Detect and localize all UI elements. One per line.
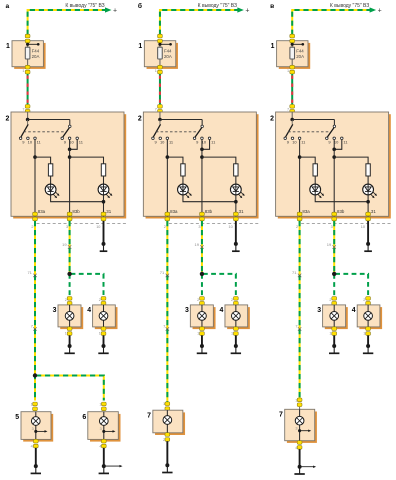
svg-text:в: в bbox=[270, 3, 274, 10]
wire: junction to fog lamp 3 (green) bbox=[333, 274, 335, 297]
wire: fuse to switch unit (green-red) bbox=[291, 74, 293, 104]
junction node to both fog lamps bbox=[67, 272, 71, 276]
lamp bulb in unit 3 bbox=[65, 305, 74, 327]
wire: contact 11 of S1 to output 83a bbox=[34, 140, 36, 217]
node on 83b feed bbox=[68, 155, 72, 159]
node: switch common bbox=[290, 118, 294, 122]
arrowhead to terminal "75" with + bbox=[370, 7, 382, 14]
inline connector 19 on 83b wire bbox=[327, 242, 336, 249]
wire: junction to fog lamp 4 (green) bbox=[71, 274, 104, 297]
switch S2 contact 9 bbox=[193, 137, 199, 145]
svg-text:7: 7 bbox=[287, 107, 289, 111]
inline connector 7 on 83a wire bbox=[163, 323, 169, 330]
inline connector 7 on 83a wire bbox=[31, 323, 37, 330]
svg-text:7: 7 bbox=[147, 412, 151, 419]
branch arrow at lamp 6 ground bbox=[104, 465, 123, 468]
junction node to both fog lamps bbox=[200, 272, 204, 276]
svg-text:F44: F44 bbox=[296, 48, 304, 53]
node at terminal 31 rail bbox=[366, 200, 370, 204]
ground symbol lamp 3 bbox=[329, 347, 339, 354]
wire: link contacts 10-11 of S2 bbox=[334, 140, 342, 150]
ground node for switch unit bbox=[366, 242, 370, 246]
wire: supply from terminal "75" to fuse (yellow-green) bbox=[160, 10, 238, 35]
svg-text:83b: 83b bbox=[337, 209, 345, 214]
svg-text:20A: 20A bbox=[164, 54, 172, 59]
wire: fog lamp 3 to ground bbox=[333, 335, 335, 346]
connector at fog lamp 4, pin 1 bbox=[99, 297, 106, 306]
svg-text:1: 1 bbox=[22, 69, 24, 73]
switch unit box 2 bbox=[270, 112, 391, 219]
wire: common bus to second switch bbox=[28, 120, 70, 126]
switch S2 contact 11 bbox=[76, 137, 84, 145]
svg-text:83a: 83a bbox=[302, 209, 310, 214]
svg-text:19: 19 bbox=[327, 242, 332, 247]
switch S2 contact 10 bbox=[333, 137, 339, 145]
ground node for switch unit bbox=[234, 242, 238, 246]
svg-text:6: 6 bbox=[82, 414, 86, 421]
wire: rear lamp 7 to ground bbox=[299, 449, 301, 467]
wire: supply from terminal "75" to fuse (yellow-green) bbox=[292, 10, 370, 35]
ground symbol lamp 3 bbox=[64, 347, 74, 354]
svg-text:1: 1 bbox=[197, 332, 199, 336]
wire: fuse to switch unit (green-red) bbox=[159, 74, 161, 104]
switch S1 contact 9 bbox=[152, 137, 158, 145]
node at terminal 31 rail bbox=[102, 200, 106, 204]
switch S2 contact 10 bbox=[68, 137, 74, 145]
connector at output 83b, pin 3 bbox=[66, 212, 72, 229]
svg-text:4: 4 bbox=[220, 307, 224, 314]
wire: contact 11 of S1 to output 83a bbox=[299, 140, 301, 217]
svg-text:1: 1 bbox=[99, 402, 101, 406]
fuse F44 20A bbox=[158, 43, 172, 67]
wire: S2 link to output 83b bbox=[201, 149, 203, 216]
connector at rear lamp 6, pin 1 bbox=[99, 402, 106, 411]
svg-text:К выводу "75" ВЗ: К выводу "75" ВЗ bbox=[198, 3, 237, 9]
connector at rear lamp 7, pin 1 bbox=[295, 398, 302, 409]
inline connector 19 on 83b wire bbox=[62, 242, 71, 249]
svg-text:1: 1 bbox=[287, 69, 289, 73]
wire: junction to rear lamp 6 (yellow-green) bbox=[36, 376, 104, 401]
lamp bulb in unit 4 bbox=[232, 305, 241, 327]
wire: fuse to switch unit (green-red) bbox=[27, 74, 29, 104]
connector at fog lamp 3, pin 1 bbox=[197, 297, 204, 306]
connector at output 31, pin 10 bbox=[229, 212, 239, 229]
connector at fog lamp 3 bottom, pin 2 bbox=[329, 327, 336, 336]
wire: input stub to common node bbox=[27, 112, 29, 120]
ground node lamp 5 bbox=[34, 464, 38, 468]
LED HL2 (switch illumination) bbox=[230, 184, 244, 198]
rear lamp unit 7 bbox=[147, 410, 185, 435]
switch S2 contact 11 bbox=[341, 137, 349, 145]
svg-text:71: 71 bbox=[160, 270, 165, 275]
wire: branch to illumination resistor R2 bbox=[202, 157, 236, 184]
svg-text:+: + bbox=[245, 7, 249, 14]
svg-text:2: 2 bbox=[31, 225, 33, 229]
svg-text:2: 2 bbox=[65, 298, 67, 302]
wire: branch to illumination resistor R1 bbox=[35, 157, 51, 184]
switch S2 pivot bbox=[333, 125, 336, 128]
svg-text:83a: 83a bbox=[170, 209, 178, 214]
node on 83b feed bbox=[332, 155, 336, 159]
svg-text:4: 4 bbox=[295, 446, 297, 450]
lamp bulb in unit 4 bbox=[99, 305, 108, 327]
ground symbol lamp 4 bbox=[231, 347, 241, 354]
connector at fog lamp 4 bottom, pin 2 bbox=[99, 327, 106, 336]
wire: rear lamp 7 to ground bbox=[166, 441, 168, 465]
wire: S2 link to output 83b bbox=[333, 149, 335, 216]
wire: terminal 31 to ground (black) bbox=[367, 221, 369, 244]
svg-text:5: 5 bbox=[15, 414, 19, 421]
wire: S2 link to output 83b bbox=[69, 149, 71, 216]
wire: LED return rail to terminal 31 bbox=[51, 195, 104, 217]
arrowhead to terminal "75" with + bbox=[105, 7, 117, 14]
svg-text:2: 2 bbox=[197, 298, 199, 302]
connector at fuse box output, pin 1 bbox=[22, 65, 30, 74]
connector at fog lamp 4, pin 1 bbox=[363, 297, 370, 306]
connector at rear lamp 7 bottom, pin 2 bbox=[163, 433, 170, 442]
wire: fog lamp 3 to ground bbox=[201, 335, 203, 346]
ground node for switch unit bbox=[102, 242, 106, 246]
wire: contact 11 of S1 to output 83a bbox=[166, 140, 168, 217]
svg-text:10: 10 bbox=[28, 140, 33, 145]
node: switch common bbox=[158, 118, 162, 122]
junction node to both fog lamps bbox=[332, 272, 336, 276]
connector at rear lamp 7, pin 1 bbox=[163, 402, 170, 411]
ground node lamp 4 bbox=[234, 344, 238, 348]
lamp bulb in unit 7 bbox=[295, 409, 311, 440]
connector at output 31, pin 10 bbox=[361, 212, 371, 229]
connector at output 83b, pin 3 bbox=[331, 212, 337, 229]
svg-text:1: 1 bbox=[295, 398, 297, 402]
resistor R2 bbox=[234, 164, 238, 176]
switch unit box 2 bbox=[138, 112, 259, 219]
connector at switch unit input, pin 7 bbox=[287, 105, 295, 114]
connector at fog lamp 4 bottom, pin 2 bbox=[231, 327, 238, 336]
lamp bulb in unit 7 bbox=[163, 410, 172, 433]
node on 83a feed bbox=[33, 155, 37, 159]
wire: input stub to common node bbox=[291, 112, 293, 120]
wire: rear lamp 6 to ground bbox=[103, 448, 105, 466]
fog lamp unit 3 bbox=[185, 305, 216, 329]
connector at output 83a, pin 2 bbox=[31, 212, 37, 229]
node on S2 link bbox=[332, 148, 336, 152]
rear lamp unit 6 bbox=[82, 412, 120, 442]
wire: LED return rail to terminal 31 bbox=[315, 195, 368, 217]
svg-text:4: 4 bbox=[31, 445, 33, 449]
ground node lamp 7 with branch bbox=[298, 465, 302, 469]
switch S1 contact 10 bbox=[27, 137, 33, 145]
ground node lamp 4 bbox=[366, 344, 370, 348]
LED HL2 (switch illumination) bbox=[363, 184, 377, 198]
wire: terminal 31 to ground (black) bbox=[103, 221, 105, 244]
switch S1 contact 11 bbox=[166, 137, 174, 145]
switch S1 lever bbox=[153, 120, 160, 137]
svg-text:3: 3 bbox=[295, 426, 297, 430]
LED HL1 (switch illumination) bbox=[178, 184, 192, 198]
svg-text:1: 1 bbox=[6, 43, 10, 50]
resistor R1 bbox=[48, 164, 52, 176]
ground symbol (switch unit) bbox=[364, 245, 372, 252]
wire: link contacts 10-11 of S2 bbox=[202, 140, 210, 150]
connector at rear lamp 5 bottom, pin 4 bbox=[31, 439, 39, 448]
switch S1 contact 11 bbox=[298, 137, 306, 145]
svg-text:2: 2 bbox=[138, 116, 142, 123]
node and branch arrow in unit 6 bbox=[102, 430, 105, 433]
fog lamp unit 3 bbox=[53, 305, 84, 329]
LED HL1 (switch illumination) bbox=[45, 184, 59, 198]
svg-text:4: 4 bbox=[87, 307, 91, 314]
mechanical link (dashed) bbox=[288, 131, 330, 133]
switch S2 lever bbox=[63, 128, 70, 138]
svg-text:К выводу "75" ВЗ: К выводу "75" ВЗ bbox=[330, 3, 369, 9]
ground symbol lamp 3 bbox=[197, 347, 207, 354]
lamp bulb in unit 4 bbox=[364, 305, 373, 327]
connector at fog lamp 3 bottom, pin 2 bbox=[197, 327, 204, 336]
wire: junction to fog lamp 4 (green) bbox=[203, 274, 236, 297]
svg-text:2: 2 bbox=[231, 298, 233, 302]
wire: supply from terminal "75" to fuse (yellow-green) bbox=[28, 10, 106, 35]
ground node lamp 7 bbox=[165, 463, 169, 467]
svg-text:19: 19 bbox=[62, 242, 67, 247]
svg-text:+: + bbox=[378, 7, 382, 14]
resistor R2 bbox=[101, 164, 105, 176]
svg-text:б: б bbox=[138, 2, 142, 10]
connector at rear lamp 7 bottom, pin 4 bbox=[295, 441, 302, 450]
wire: junction to fog lamp 4 (green) bbox=[335, 274, 368, 297]
svg-text:71: 71 bbox=[292, 270, 297, 275]
svg-text:1: 1 bbox=[155, 69, 157, 73]
svg-text:20A: 20A bbox=[32, 54, 40, 59]
ground node lamp 3 bbox=[332, 344, 336, 348]
switch S2 lever bbox=[195, 128, 202, 138]
ground node lamp 6 with branch bbox=[102, 464, 106, 468]
wire: branch to illumination resistor R1 bbox=[300, 157, 316, 184]
ground symbol lamp 6 bbox=[99, 467, 109, 474]
LED HL1 (switch illumination) bbox=[310, 184, 324, 198]
svg-text:3: 3 bbox=[100, 427, 102, 431]
connector at switch unit input, pin 7 bbox=[22, 105, 30, 114]
connector at fuse box output, pin 1 bbox=[287, 65, 295, 74]
svg-text:19: 19 bbox=[194, 242, 199, 247]
fog lamp unit 3 bbox=[317, 305, 348, 329]
ground symbol lamp 4 bbox=[363, 347, 373, 354]
connector at output 83b, pin 3 bbox=[198, 212, 204, 229]
connector at output 83a, pin 2 bbox=[296, 212, 302, 229]
inline connector 71 on 83a wire bbox=[292, 270, 301, 277]
svg-text:71: 71 bbox=[27, 270, 32, 275]
connector at fog lamp 3, pin 1 bbox=[65, 297, 72, 306]
wire: input stub to common node bbox=[159, 112, 161, 120]
wire: rear lamp 5 to ground bbox=[35, 448, 37, 466]
wire: 83a to rear fog lamps (yellow-green) bbox=[34, 221, 36, 401]
wire: fog lamp 4 to ground bbox=[103, 335, 105, 346]
node on 83a feed bbox=[298, 155, 302, 159]
wire: fog lamp 3 to ground bbox=[69, 335, 71, 346]
fuse F44 20A bbox=[25, 43, 39, 67]
svg-text:3: 3 bbox=[185, 307, 189, 314]
ground symbol lamp 5 bbox=[31, 467, 41, 474]
lamp bulb in unit 6 bbox=[99, 412, 115, 440]
lamp bulb in unit 5 bbox=[31, 412, 47, 440]
wire: fog lamp 4 to ground bbox=[367, 335, 369, 346]
connector at fog lamp 4, pin 1 bbox=[231, 297, 238, 306]
ground node lamp 3 bbox=[68, 344, 72, 348]
connector at fuse box input bbox=[290, 34, 295, 43]
wire: 83b to fog lamp junction (yellow-green) bbox=[333, 221, 335, 274]
svg-text:31: 31 bbox=[106, 209, 111, 214]
connector at fuse box output, pin 1 bbox=[155, 65, 163, 74]
ground symbol lamp 4 bbox=[98, 347, 108, 354]
fuse/relay box 1 bbox=[271, 41, 311, 69]
svg-text:7: 7 bbox=[22, 107, 24, 111]
ground symbol (switch unit) bbox=[100, 245, 108, 252]
svg-text:7: 7 bbox=[279, 412, 283, 419]
lamp bulb in unit 3 bbox=[198, 305, 207, 327]
rear lamp unit 5 bbox=[15, 412, 53, 442]
svg-text:83b: 83b bbox=[205, 209, 213, 214]
arrowhead to terminal "75" with + bbox=[237, 7, 249, 14]
node on 83b feed bbox=[200, 155, 204, 159]
wire: LED return rail to terminal 31 bbox=[183, 195, 236, 217]
switch S1 lever bbox=[21, 120, 28, 137]
svg-text:2: 2 bbox=[363, 298, 365, 302]
junction node to rear lamps 5 and 6 bbox=[33, 373, 37, 377]
svg-text:2: 2 bbox=[296, 225, 298, 229]
connector at fog lamp 3 bottom, pin 2 bbox=[65, 327, 72, 336]
svg-text:2: 2 bbox=[163, 438, 165, 442]
switch S2 lever bbox=[327, 128, 334, 138]
svg-text:2: 2 bbox=[270, 116, 274, 123]
svg-text:2: 2 bbox=[6, 116, 10, 123]
node and branch arrow in unit 7 bbox=[298, 429, 301, 432]
svg-text:31: 31 bbox=[371, 209, 376, 214]
svg-text:10: 10 bbox=[292, 140, 297, 145]
LED HL2 (switch illumination) bbox=[98, 184, 112, 198]
switch S1 contact 11 bbox=[34, 137, 42, 145]
svg-text:1: 1 bbox=[31, 402, 33, 406]
ground node lamp 3 bbox=[200, 344, 204, 348]
svg-text:3: 3 bbox=[198, 225, 200, 229]
ground node lamp 4 bbox=[102, 344, 106, 348]
svg-text:83b: 83b bbox=[72, 209, 80, 214]
resistor R2 bbox=[366, 164, 370, 176]
connector at switch unit input, pin 7 bbox=[155, 105, 163, 114]
switch S1 contact 9 bbox=[284, 137, 290, 145]
connector row separation (dashed) bbox=[301, 222, 391, 224]
ground symbol lamp 7 bbox=[162, 466, 172, 473]
switch S2 contact 9 bbox=[61, 137, 67, 145]
connector at fuse box input bbox=[25, 34, 30, 43]
svg-text:31: 31 bbox=[239, 209, 244, 214]
switch S1 contact 10 bbox=[159, 137, 165, 145]
svg-text:1: 1 bbox=[163, 402, 165, 406]
inline connector 19 on 83b wire bbox=[194, 242, 203, 249]
connector at output 83a, pin 2 bbox=[164, 212, 170, 229]
wire: branch to illumination resistor R1 bbox=[167, 157, 183, 184]
switch S1 contact 9 bbox=[19, 137, 25, 145]
connector at fog lamp 3, pin 1 bbox=[329, 297, 336, 306]
node on S2 link bbox=[68, 148, 72, 152]
wire: branch to illumination resistor R2 bbox=[70, 157, 104, 184]
connector at fog lamp 4 bottom, pin 2 bbox=[363, 327, 370, 336]
svg-text:2: 2 bbox=[99, 298, 101, 302]
svg-text:1: 1 bbox=[65, 332, 67, 336]
wire: common bus to second switch bbox=[292, 120, 334, 126]
wire: common bus to second switch bbox=[160, 120, 202, 126]
svg-text:F44: F44 bbox=[32, 48, 40, 53]
svg-text:1: 1 bbox=[271, 43, 275, 50]
wire: 83a to rear fog lamps (yellow-green) bbox=[299, 221, 301, 398]
svg-text:4: 4 bbox=[99, 445, 101, 449]
switch S2 contact 10 bbox=[201, 137, 207, 145]
node and branch arrow in unit 5 bbox=[34, 430, 37, 433]
mechanical link (dashed) bbox=[24, 131, 66, 133]
switch S1 contact 10 bbox=[291, 137, 297, 145]
inline connector 7 on 83a wire bbox=[295, 323, 301, 330]
svg-text:1: 1 bbox=[99, 332, 101, 336]
fuse/relay box 1 bbox=[138, 41, 178, 69]
node on 83a feed bbox=[166, 155, 170, 159]
connector at rear lamp 5, pin 1 bbox=[31, 402, 38, 411]
svg-text:3: 3 bbox=[32, 427, 34, 431]
fog lamp unit 4 bbox=[220, 305, 250, 329]
svg-text:2: 2 bbox=[329, 298, 331, 302]
wire: fog lamp 4 to ground bbox=[235, 335, 237, 346]
wire: branch to illumination resistor R2 bbox=[334, 157, 368, 184]
wire: 83b to fog lamp junction (yellow-green) bbox=[201, 221, 203, 274]
connector row separation (dashed) bbox=[37, 222, 127, 224]
svg-text:20A: 20A bbox=[296, 54, 304, 59]
resistor R1 bbox=[313, 164, 317, 176]
connector at rear lamp 6 bottom, pin 4 bbox=[99, 439, 106, 448]
switch unit box 2 bbox=[6, 112, 127, 219]
wire: junction to fog lamp 3 (green) bbox=[69, 274, 71, 297]
mechanical link (dashed) bbox=[156, 131, 198, 133]
svg-text:3: 3 bbox=[66, 225, 68, 229]
node at terminal 31 rail bbox=[234, 200, 238, 204]
resistor R1 bbox=[181, 164, 185, 176]
svg-text:К выводу "75" ВЗ: К выводу "75" ВЗ bbox=[65, 3, 104, 9]
svg-text:1: 1 bbox=[231, 332, 233, 336]
svg-text:4: 4 bbox=[352, 307, 356, 314]
inline connector 71 on 83a wire bbox=[160, 270, 169, 277]
svg-text:+: + bbox=[113, 7, 117, 14]
svg-text:10: 10 bbox=[229, 225, 233, 229]
inline connector 71 on 83a wire bbox=[27, 270, 36, 277]
wire: 83b to fog lamp junction (yellow-green) bbox=[69, 221, 71, 274]
svg-text:10: 10 bbox=[361, 225, 365, 229]
connector row separation (dashed) bbox=[169, 222, 259, 224]
svg-text:1: 1 bbox=[329, 332, 331, 336]
svg-text:3: 3 bbox=[317, 307, 321, 314]
svg-text:1: 1 bbox=[138, 43, 142, 50]
svg-text:83a: 83a bbox=[38, 209, 46, 214]
node: switch common bbox=[26, 118, 30, 122]
rear lamp unit 7 bbox=[279, 409, 317, 443]
svg-text:10: 10 bbox=[96, 225, 100, 229]
switch S2 contact 11 bbox=[208, 137, 216, 145]
svg-text:а: а bbox=[6, 3, 10, 10]
svg-text:10: 10 bbox=[160, 140, 165, 145]
svg-text:3: 3 bbox=[331, 225, 333, 229]
svg-text:F44: F44 bbox=[164, 48, 172, 53]
switch S1 lever bbox=[286, 120, 293, 137]
switch S2 pivot bbox=[69, 125, 72, 128]
connector at output 31, pin 10 bbox=[96, 212, 106, 229]
svg-text:3: 3 bbox=[53, 307, 57, 314]
wire: link contacts 10-11 of S2 bbox=[70, 140, 78, 150]
lamp bulb in unit 3 bbox=[330, 305, 339, 327]
